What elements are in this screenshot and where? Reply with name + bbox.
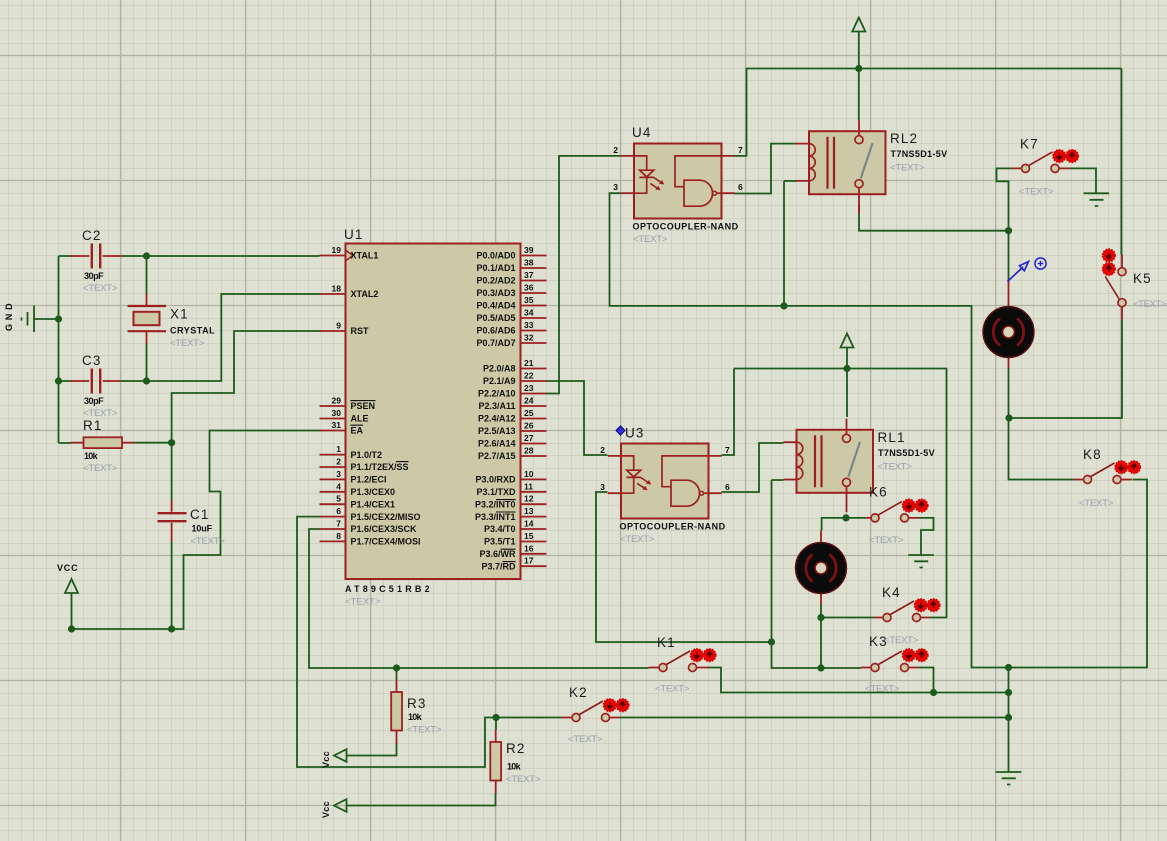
svg-text:<TEXT>: <TEXT> bbox=[83, 463, 118, 474]
svg-text:38: 38 bbox=[524, 258, 534, 268]
svg-text:P3.1/TXD: P3.1/TXD bbox=[476, 487, 516, 497]
svg-text:VCC: VCC bbox=[57, 563, 78, 573]
wire C2 to XTAL1 pin 19 bbox=[122, 255, 320, 257]
svg-text:31: 31 bbox=[332, 420, 342, 430]
wire P1.5 pin 6 to K2 row bbox=[297, 517, 562, 767]
wire K6 right to ground bbox=[919, 518, 934, 555]
svg-text:<TEXT>: <TEXT> bbox=[620, 534, 655, 545]
svg-text:P1.2/ECI: P1.2/ECI bbox=[351, 475, 387, 485]
svg-text:39: 39 bbox=[524, 245, 534, 255]
svg-text:<TEXT>: <TEXT> bbox=[1079, 498, 1114, 509]
svg-text:37: 37 bbox=[524, 270, 534, 280]
svg-text:30: 30 bbox=[332, 408, 342, 418]
wire P1.6 pin 7 to K1 row bbox=[309, 529, 649, 668]
resistor R3 10k bbox=[391, 680, 442, 744]
junction dot K1 row / ground column bbox=[1005, 689, 1012, 696]
svg-text:P3.4/T0: P3.4/T0 bbox=[484, 524, 516, 534]
switch K5 bbox=[1103, 249, 1167, 319]
svg-text:P3.3/INT1: P3.3/INT1 bbox=[475, 512, 516, 522]
wire R1 junction down to C1 bbox=[171, 443, 173, 500]
svg-text:16: 16 bbox=[524, 543, 534, 553]
wire VCC mid rail to K4 right riser bbox=[734, 369, 947, 618]
wire motor2 junction down to K3 row bbox=[820, 618, 822, 669]
no-model marker U3 bbox=[616, 426, 625, 435]
power Vcc arrow at R3 bbox=[321, 749, 347, 768]
junction dot motor1 top / K7 bbox=[1005, 227, 1012, 234]
svg-text:P2.2/A10: P2.2/A10 bbox=[478, 389, 516, 399]
wire K7 right to ground bbox=[1070, 168, 1096, 193]
junction dot C3/X1 bbox=[143, 377, 150, 384]
svg-text:P0.1/AD1: P0.1/AD1 bbox=[476, 263, 515, 273]
wire R3 bottom to Vcc arrow bbox=[347, 744, 397, 756]
svg-text:U1: U1 bbox=[344, 227, 363, 242]
wire VCC top stem to RL2 switch bbox=[858, 32, 860, 121]
junction dot K2 row / ground column bbox=[1005, 714, 1012, 721]
svg-text:C3: C3 bbox=[82, 353, 101, 368]
switch K2 bbox=[562, 685, 629, 745]
junction dot motor1 bottom / K5 bbox=[1005, 414, 1012, 421]
svg-text:19: 19 bbox=[332, 245, 342, 255]
svg-text:P0.4/AD4: P0.4/AD4 bbox=[476, 301, 515, 311]
svg-text:P2.1/A9: P2.1/A9 bbox=[483, 376, 516, 386]
junction dot R3/K1 row bbox=[393, 664, 400, 671]
svg-text:P1.6/CEX3/SCK: P1.6/CEX3/SCK bbox=[351, 524, 418, 534]
svg-text:P0.2/AD2: P0.2/AD2 bbox=[476, 276, 515, 286]
svg-text:<TEXT>: <TEXT> bbox=[191, 536, 226, 547]
svg-text:<TEXT>: <TEXT> bbox=[865, 684, 900, 695]
svg-text:RST: RST bbox=[351, 326, 370, 336]
svg-text:14: 14 bbox=[524, 519, 534, 529]
wire U4 pin 7 to top rail bbox=[734, 69, 1122, 156]
svg-text:34: 34 bbox=[524, 308, 534, 318]
wire C3 to XTAL2 pin 18 bbox=[121, 294, 320, 381]
svg-text:P0.7/AD7: P0.7/AD7 bbox=[476, 338, 515, 348]
wire ground column bottom right bbox=[1008, 668, 1010, 773]
relay RL2 T7NS5D1-5V bbox=[796, 120, 948, 214]
svg-text:10k: 10k bbox=[507, 762, 522, 772]
svg-text:32: 32 bbox=[524, 333, 534, 343]
wire VCC arrow stem to RL1 switch top bbox=[846, 348, 848, 417]
svg-text:K5: K5 bbox=[1133, 271, 1152, 286]
svg-text:RL2: RL2 bbox=[890, 131, 918, 146]
wire U4 pin 6 to RL2 coil top bbox=[734, 144, 796, 194]
svg-text:OPTOCOUPLER-NAND: OPTOCOUPLER-NAND bbox=[620, 522, 726, 532]
svg-text:P0.6/AD6: P0.6/AD6 bbox=[476, 326, 515, 336]
svg-text:P1.0/T2: P1.0/T2 bbox=[351, 450, 383, 460]
wire RST network: R1 right to RST pin 9 bbox=[135, 331, 322, 443]
switch K8 bbox=[1074, 447, 1141, 509]
svg-text:K8: K8 bbox=[1083, 447, 1102, 462]
wire K5 bottom to motor1 junction bbox=[1009, 320, 1122, 419]
svg-text:P0.5/AD5: P0.5/AD5 bbox=[476, 313, 515, 323]
wire U4 pin 3 to feedback node bbox=[610, 193, 785, 306]
ground symbol under K7 bbox=[1084, 193, 1110, 206]
wire RL2 switch bottom to motor1 top bbox=[859, 205, 1009, 281]
svg-text:36: 36 bbox=[524, 283, 534, 293]
wire RL2 coil bottom down to node A bbox=[784, 181, 796, 306]
svg-text:21: 21 bbox=[524, 358, 534, 368]
motor M2 bbox=[796, 530, 847, 604]
svg-text:26: 26 bbox=[524, 421, 534, 431]
svg-text:P3.6/WR: P3.6/WR bbox=[479, 549, 516, 559]
svg-text:7: 7 bbox=[336, 519, 341, 529]
svg-text:24: 24 bbox=[524, 396, 534, 406]
svg-text:<TEXT>: <TEXT> bbox=[884, 635, 919, 646]
power Vcc arrow at R2 bbox=[321, 799, 347, 818]
svg-text:1: 1 bbox=[336, 444, 341, 454]
svg-text:3: 3 bbox=[336, 469, 341, 479]
svg-text:10k: 10k bbox=[408, 712, 423, 722]
svg-text:X1: X1 bbox=[170, 307, 189, 322]
optocoupler U3 OPTOCOUPLER-NAND bbox=[600, 426, 730, 546]
svg-text:P0.3/AD3: P0.3/AD3 bbox=[476, 288, 515, 298]
svg-text:35: 35 bbox=[524, 295, 534, 305]
svg-text:T7NS5D1-5V: T7NS5D1-5V bbox=[891, 149, 948, 159]
svg-text:15: 15 bbox=[524, 531, 534, 541]
svg-text:<TEXT>: <TEXT> bbox=[633, 234, 668, 245]
capacitor C1 10uF bbox=[158, 500, 226, 547]
svg-text:12: 12 bbox=[524, 494, 534, 504]
svg-text:<TEXT>: <TEXT> bbox=[878, 461, 913, 472]
svg-text:K2: K2 bbox=[569, 685, 588, 700]
resistor R1 10k bbox=[71, 418, 135, 474]
svg-text:P1.1/T2EX/SS: P1.1/T2EX/SS bbox=[351, 462, 409, 472]
motor M1 polarity mark (+) bbox=[1035, 258, 1046, 269]
power VCC symbol left (with label) bbox=[57, 563, 78, 593]
svg-text:<TEXT>: <TEXT> bbox=[890, 163, 925, 174]
svg-text:4: 4 bbox=[336, 481, 341, 491]
svg-text:P1.7/CEX4/MOSI: P1.7/CEX4/MOSI bbox=[351, 537, 421, 547]
svg-text:P0.0/AD0: P0.0/AD0 bbox=[476, 251, 515, 261]
svg-text:PSEN: PSEN bbox=[351, 401, 376, 411]
svg-text:<TEXT>: <TEXT> bbox=[1019, 187, 1054, 198]
svg-text:P1.4/CEX1: P1.4/CEX1 bbox=[351, 499, 396, 509]
ground symbol left (GND) bbox=[4, 303, 34, 332]
svg-text:R2: R2 bbox=[506, 741, 525, 756]
wire K3 right down to K1 row bbox=[919, 668, 934, 693]
svg-text:23: 23 bbox=[524, 383, 534, 393]
svg-text:<TEXT>: <TEXT> bbox=[869, 535, 904, 546]
microcontroller U1 AT89C51RB2 bbox=[320, 227, 547, 608]
wire motor2 bottom to K4 left bbox=[821, 604, 874, 618]
switch K1 bbox=[649, 635, 716, 695]
svg-text:<TEXT>: <TEXT> bbox=[345, 597, 381, 608]
svg-text:3: 3 bbox=[600, 482, 605, 492]
svg-text:<TEXT>: <TEXT> bbox=[407, 725, 442, 736]
wire P2.1 pin 22 to U3 pin 2 bbox=[547, 381, 608, 455]
svg-text:27: 27 bbox=[524, 433, 534, 443]
wire U3 pin 3 down to K3 feed row bbox=[596, 492, 772, 642]
svg-text:30pF: 30pF bbox=[84, 271, 104, 281]
junction dot R1/RST/C1 bbox=[168, 439, 175, 446]
svg-text:U3: U3 bbox=[625, 426, 644, 441]
svg-text:P1.3/CEX0: P1.3/CEX0 bbox=[351, 487, 396, 497]
svg-text:K7: K7 bbox=[1020, 137, 1039, 152]
crystal X1 bbox=[128, 294, 216, 350]
svg-text:P3.5/T1: P3.5/T1 bbox=[484, 537, 516, 547]
svg-text:ALE: ALE bbox=[351, 414, 369, 424]
wire node A to right riser bbox=[784, 306, 1147, 668]
junction dot C1/VCC rail bbox=[168, 625, 175, 632]
switch K3 bbox=[861, 634, 928, 695]
switch K6 bbox=[866, 485, 928, 547]
junction dot RL1 coil line / U3 pin3 row bbox=[768, 638, 775, 645]
svg-text:13: 13 bbox=[524, 506, 534, 516]
svg-text:<TEXT>: <TEXT> bbox=[506, 774, 541, 785]
junction dot VCC arrow/rail bbox=[68, 625, 75, 632]
junction dot R2/K2 row bbox=[492, 714, 499, 721]
junction dot top rail VCC/RL2 bbox=[855, 65, 862, 72]
wire R2 bottom to Vcc arrow bbox=[347, 794, 496, 806]
svg-text:10uF: 10uF bbox=[192, 524, 213, 534]
svg-text:<TEXT>: <TEXT> bbox=[655, 684, 690, 695]
svg-text:2: 2 bbox=[613, 145, 618, 155]
wire X1 bottom to C3 junction bbox=[146, 344, 148, 382]
svg-text:9: 9 bbox=[336, 321, 341, 331]
switch K4 bbox=[874, 585, 940, 646]
wire K7 left jog to motor1 line bbox=[997, 168, 1012, 230]
svg-text:29: 29 bbox=[332, 396, 342, 406]
svg-text:XTAL2: XTAL2 bbox=[351, 289, 379, 299]
svg-text:P2.7/A15: P2.7/A15 bbox=[478, 451, 516, 461]
wire R2 top stem bbox=[495, 718, 497, 730]
svg-text:17: 17 bbox=[524, 556, 534, 566]
svg-text:OPTOCOUPLER-NAND: OPTOCOUPLER-NAND bbox=[633, 222, 739, 232]
svg-text:K1: K1 bbox=[657, 635, 676, 650]
svg-text:22: 22 bbox=[524, 371, 534, 381]
svg-text:P2.3/A11: P2.3/A11 bbox=[478, 401, 515, 411]
wire motor1 bottom to K8 left bbox=[1009, 368, 1074, 480]
svg-text:8: 8 bbox=[336, 531, 341, 541]
svg-text:<TEXT>: <TEXT> bbox=[83, 283, 118, 294]
junction dot right riser / ground column bbox=[1005, 664, 1012, 671]
svg-text:Vcc: Vcc bbox=[321, 751, 331, 768]
wire VCC arrow stem left bbox=[71, 594, 73, 630]
svg-text:<TEXT>: <TEXT> bbox=[170, 338, 205, 349]
svg-text:33: 33 bbox=[524, 320, 534, 330]
resistor R2 10k bbox=[490, 730, 541, 794]
wire K1 right to ground column bbox=[709, 668, 1009, 693]
svg-text:P3.2/INT0: P3.2/INT0 bbox=[475, 499, 516, 509]
svg-text:RL1: RL1 bbox=[878, 430, 906, 445]
wire GND rail left (C2/C3/R1 column) bbox=[34, 256, 71, 443]
wire R3 top stem bbox=[396, 668, 398, 680]
svg-text:3: 3 bbox=[613, 182, 618, 192]
capacitor C3 30pF bbox=[70, 353, 121, 419]
wire EA pin 31 staircase to VCC rail bbox=[72, 431, 322, 630]
wire C1 bottom to VCC rail bbox=[171, 542, 173, 630]
junction dot motor2 line / K3 row bbox=[817, 664, 824, 671]
svg-text:CRYSTAL: CRYSTAL bbox=[170, 326, 215, 336]
svg-text:R3: R3 bbox=[407, 696, 426, 711]
junction dot GND tap bbox=[55, 315, 62, 322]
svg-text:C2: C2 bbox=[82, 228, 101, 243]
wire RL1 coil bottom down to K3 row bbox=[772, 480, 862, 668]
svg-text:10: 10 bbox=[524, 469, 534, 479]
svg-text:28: 28 bbox=[524, 446, 534, 456]
svg-text:P3.0/RXD: P3.0/RXD bbox=[475, 475, 516, 485]
svg-text:P2.4/A12: P2.4/A12 bbox=[478, 414, 516, 424]
wire U3 pin 7 riser bbox=[722, 369, 735, 456]
junction dot node A (U4 pin3/RL2 coil) bbox=[780, 302, 787, 309]
wire K2 right to ground column bbox=[621, 717, 1009, 719]
wire RL1 switch bottom node to K6 and motor2 bbox=[822, 518, 866, 531]
motor M1 bbox=[983, 281, 1034, 368]
motor M1 rotation arrow (blue) bbox=[1008, 262, 1029, 282]
junction dot RL1 bottom / K6 / motor2 bbox=[842, 514, 849, 521]
svg-text:11: 11 bbox=[524, 481, 533, 491]
svg-text:5: 5 bbox=[336, 494, 341, 504]
svg-text:K6: K6 bbox=[869, 485, 888, 500]
power VCC symbol top bbox=[852, 18, 865, 32]
svg-text:Vcc: Vcc bbox=[321, 801, 331, 818]
svg-text:6: 6 bbox=[725, 482, 730, 492]
svg-text:<TEXT>: <TEXT> bbox=[1133, 299, 1167, 310]
junction dot GND/C2 column at C3 bbox=[55, 377, 62, 384]
svg-text:25: 25 bbox=[524, 408, 534, 418]
svg-text:6: 6 bbox=[336, 506, 341, 516]
svg-text:P2.6/A14: P2.6/A14 bbox=[478, 439, 516, 449]
svg-text:10k: 10k bbox=[84, 451, 99, 461]
svg-text:30pF: 30pF bbox=[84, 396, 104, 406]
svg-text:P2.0/A8: P2.0/A8 bbox=[483, 364, 516, 374]
svg-text:R1: R1 bbox=[83, 418, 102, 433]
junction dot C2/X1 bbox=[143, 252, 150, 259]
wire P2.2 pin 23 to U4 pin 2 bbox=[547, 156, 621, 394]
junction dot K3 / K1 ground row bbox=[930, 689, 937, 696]
wire C2/X1 junction down to crystal bbox=[146, 256, 148, 294]
svg-text:T7NS5D1-5V: T7NS5D1-5V bbox=[878, 448, 935, 458]
svg-text:<TEXT>: <TEXT> bbox=[568, 734, 603, 745]
svg-text:7: 7 bbox=[725, 445, 730, 455]
svg-text:6: 6 bbox=[738, 182, 743, 192]
junction dot motor2 / K4 row bbox=[817, 614, 824, 621]
svg-text:C1: C1 bbox=[190, 507, 209, 522]
relay RL1 T7NS5D1-5V bbox=[784, 419, 936, 513]
wire U3 pin 6 to RL1 coil top bbox=[722, 443, 784, 492]
ground symbol under K6 bbox=[908, 555, 934, 568]
wire K5 top from rail bbox=[1121, 69, 1123, 255]
svg-text:2: 2 bbox=[336, 457, 341, 467]
svg-text:EA: EA bbox=[351, 426, 364, 436]
power VCC symbol above RL1 bbox=[841, 334, 854, 348]
svg-text:18: 18 bbox=[332, 284, 342, 294]
svg-text:2: 2 bbox=[600, 445, 605, 455]
ground symbol bottom right bbox=[996, 772, 1022, 785]
capacitor C2 30pF bbox=[70, 228, 122, 294]
svg-text:P1.5/CEX2/MISO: P1.5/CEX2/MISO bbox=[351, 512, 421, 522]
svg-text:7: 7 bbox=[738, 145, 743, 155]
svg-text:P3.7/RD: P3.7/RD bbox=[481, 561, 516, 571]
svg-text:U4: U4 bbox=[632, 125, 651, 140]
switch K7 bbox=[1012, 137, 1079, 198]
svg-text:K4: K4 bbox=[882, 585, 901, 600]
optocoupler U4 OPTOCOUPLER-NAND bbox=[613, 125, 743, 245]
svg-text:XTAL1: XTAL1 bbox=[351, 251, 379, 261]
svg-text:P2.5/A13: P2.5/A13 bbox=[478, 426, 516, 436]
junction dot VCC mid rail / RL1 top bbox=[843, 365, 850, 372]
svg-text:GND: GND bbox=[4, 303, 14, 331]
